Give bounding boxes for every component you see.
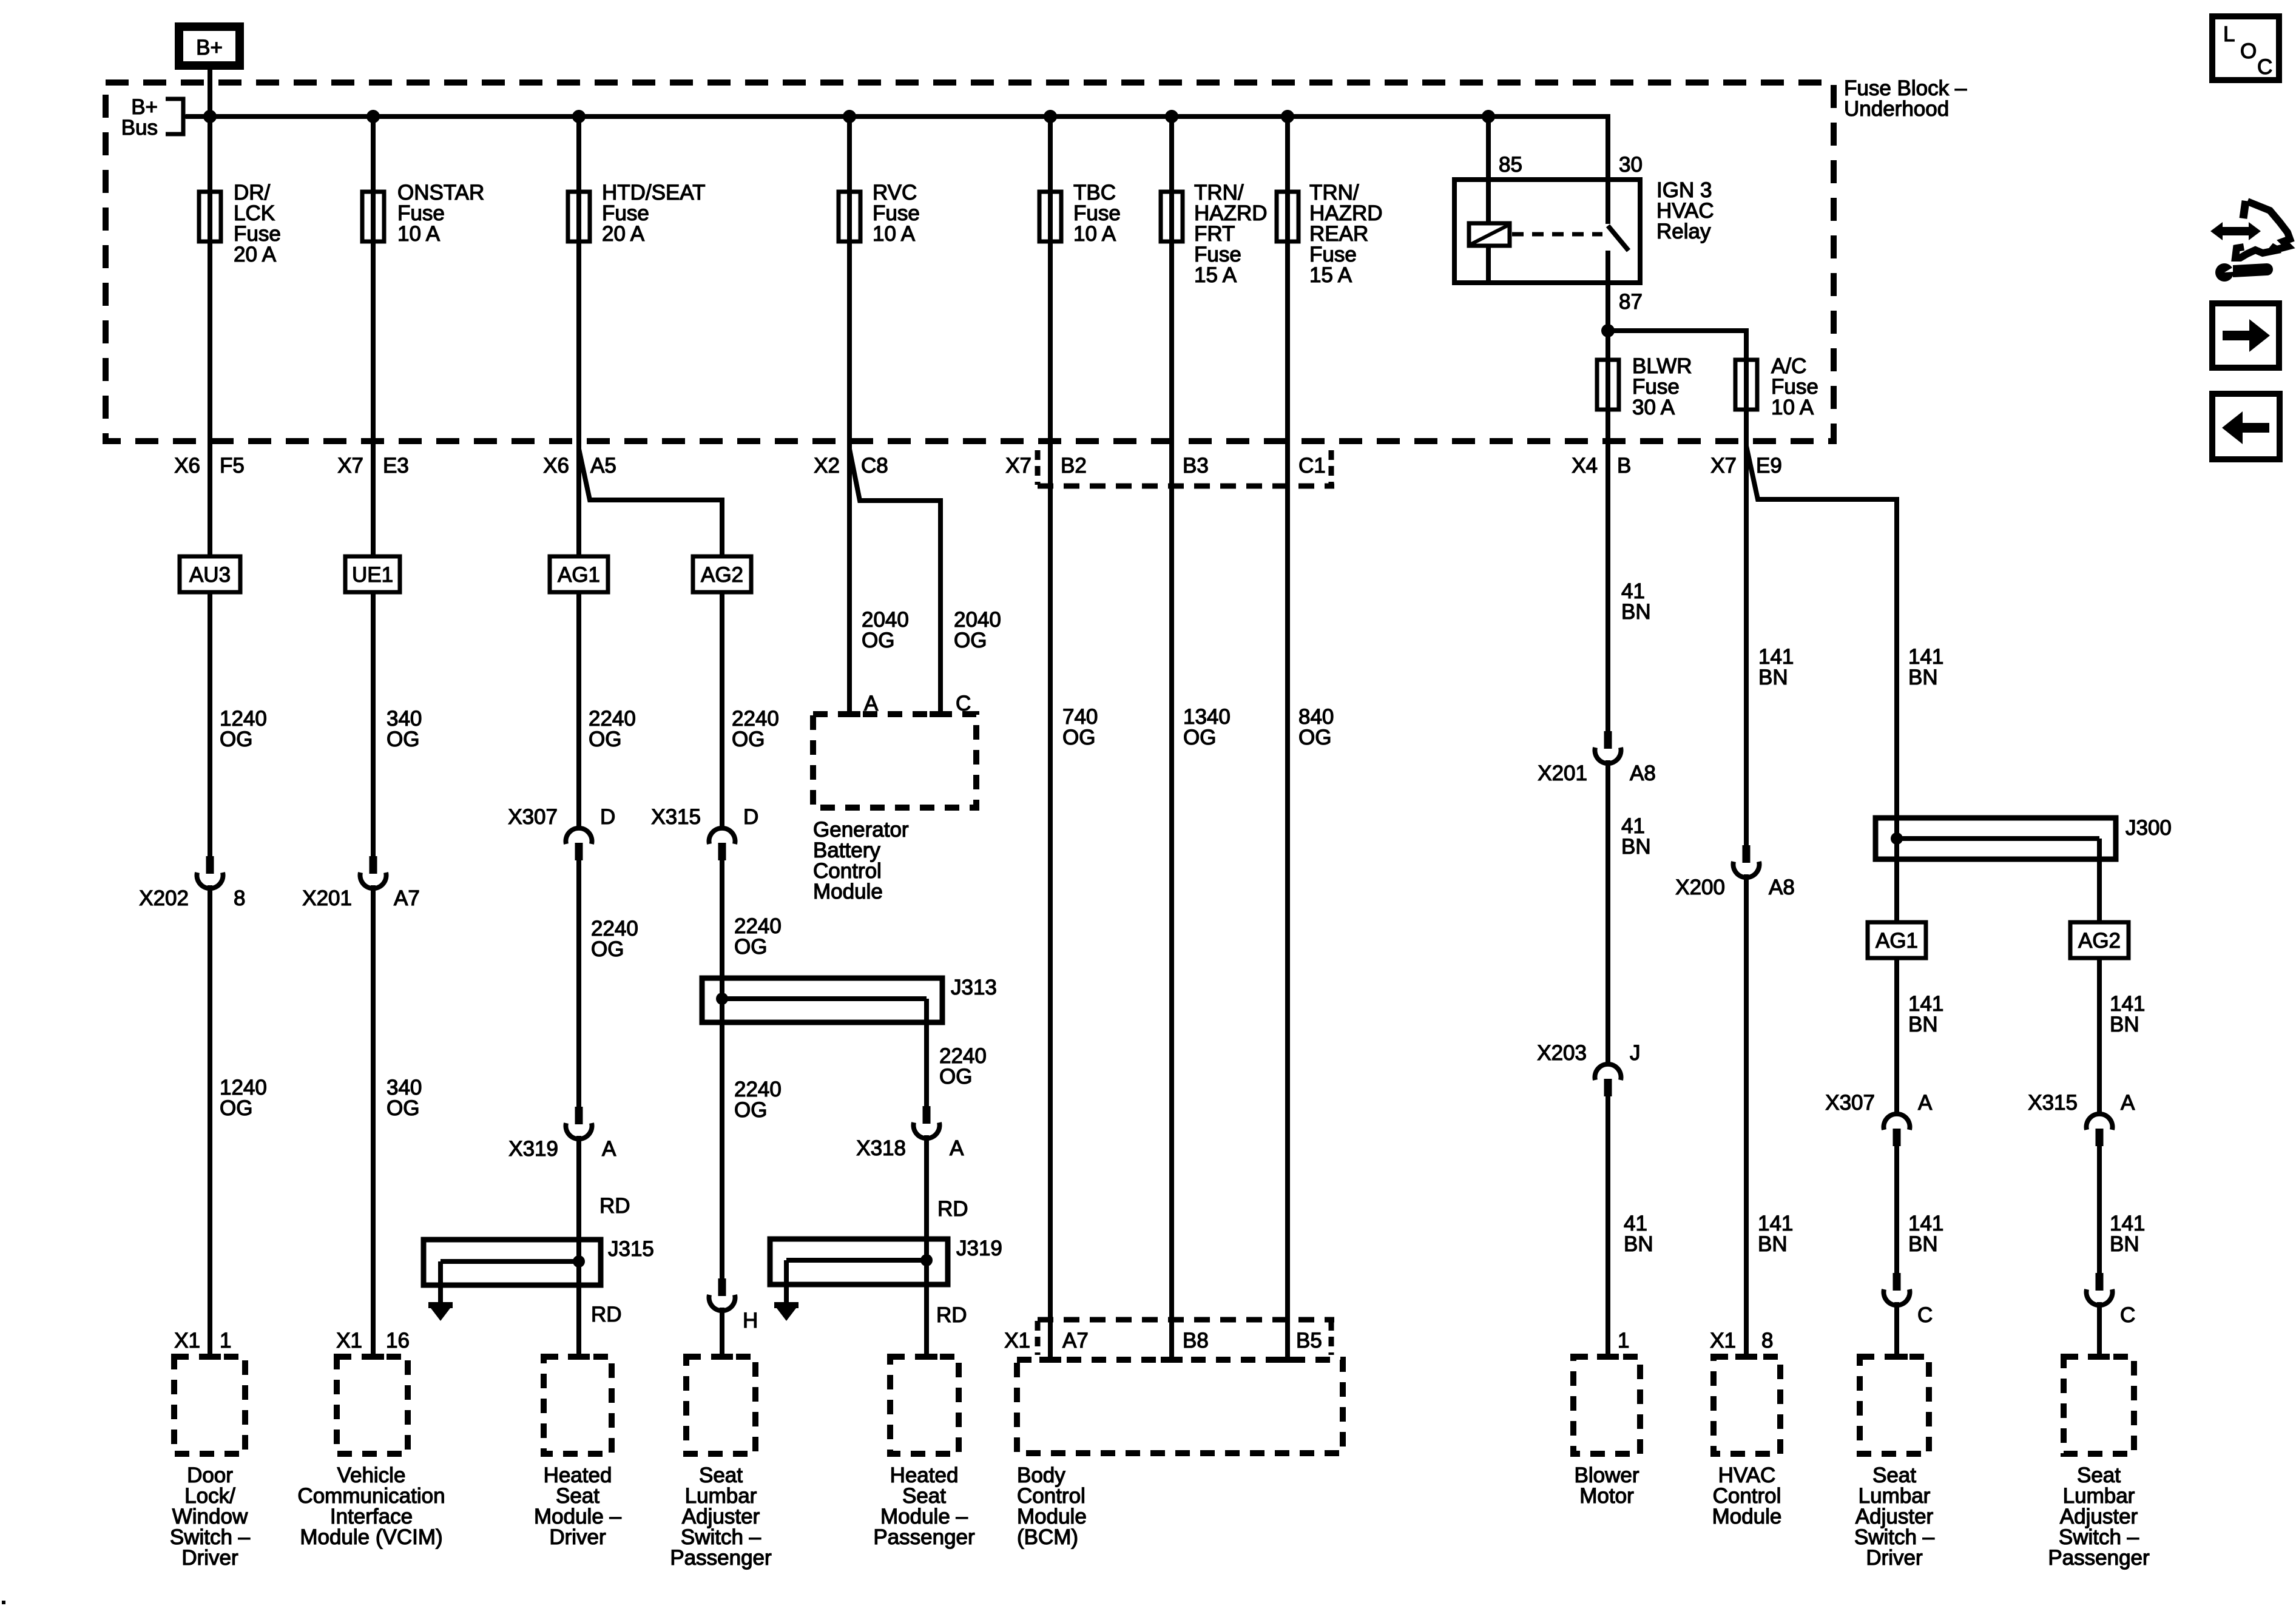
module seat lumbar passenger left dashed box <box>686 1357 755 1454</box>
svg-text:15 A: 15 A <box>1194 263 1237 287</box>
svg-text:AG2: AG2 <box>2078 929 2121 953</box>
wire 41 BN mid <box>1606 760 1610 1064</box>
svg-text:X6: X6 <box>543 454 569 478</box>
label circuit 2240 OG AG1 <box>589 707 636 751</box>
wire BLWR column down <box>1606 411 1610 731</box>
svg-text:B8: B8 <box>1183 1329 1209 1352</box>
wire branch E9 to J300 <box>1746 446 1897 818</box>
wire B+ drop <box>208 70 212 116</box>
label circuit 1240 OG <box>220 707 267 751</box>
junction dot 87 <box>1601 324 1615 337</box>
module seat lumbar driver right label <box>1854 1463 1935 1570</box>
fuse TRN/HAZRD FRT 15A <box>1161 181 1268 287</box>
svg-text:B3: B3 <box>1183 454 1209 478</box>
splice J319 <box>770 1237 1002 1302</box>
label circuit 740 OG <box>1062 705 1098 749</box>
label circuit 2040 OG C <box>954 608 1001 652</box>
svg-text:J313: J313 <box>951 976 997 999</box>
svg-text:10 A: 10 A <box>1073 222 1116 246</box>
junction dot bus TRN/HAZRD REAR <box>1281 110 1294 123</box>
svg-text:F5: F5 <box>220 454 245 478</box>
option code box UE1 <box>345 556 400 592</box>
junction dot bus RVC <box>843 110 856 123</box>
svg-text:UE1: UE1 <box>352 563 393 587</box>
svg-text:X201: X201 <box>302 886 352 910</box>
svg-text:X319: X319 <box>508 1137 558 1161</box>
junction dot bus relay pin85 <box>1482 110 1495 123</box>
splice J300 <box>1876 816 2172 859</box>
svg-text:Module (VCIM): Module (VCIM) <box>300 1525 442 1549</box>
module heated seat driver dashed box <box>544 1357 612 1454</box>
svg-text:20 A: 20 A <box>234 243 277 266</box>
svg-text:A7: A7 <box>1062 1329 1089 1352</box>
svg-text:X307: X307 <box>1825 1091 1875 1115</box>
label circuit 141 BN AG1 <box>1908 992 1943 1036</box>
wire column HTD/SEAT upper <box>576 116 581 556</box>
junction dot bus TRN/HAZRD FRT <box>1165 110 1178 123</box>
svg-text:BN: BN <box>1758 666 1788 689</box>
pin X1 16 vcim <box>336 1329 410 1352</box>
svg-text:OG: OG <box>1062 726 1095 749</box>
svg-text:BN: BN <box>2110 1232 2139 1256</box>
wire column TBC <box>1048 116 1053 1360</box>
module seat lumbar driver right dashed box <box>1860 1357 1929 1454</box>
svg-text:A5: A5 <box>590 454 616 478</box>
svg-text:OG: OG <box>734 1098 767 1122</box>
label circuit 2240 OG AG2 lower <box>734 1078 782 1122</box>
wire H to box <box>720 1308 724 1357</box>
label circuit 41 BN mid <box>1621 814 1651 859</box>
svg-text:BN: BN <box>1758 1232 1788 1256</box>
svg-text:X1: X1 <box>336 1329 362 1352</box>
pin X1 A7 B8 B5 bcm <box>1004 1329 1322 1352</box>
wire 141 BN lumbar passenger <box>2097 1146 2102 1273</box>
svg-text:X201: X201 <box>1538 761 1587 785</box>
svg-text:Relay: Relay <box>1656 220 1711 243</box>
pin X6 A5 fuse block exit <box>543 454 616 478</box>
svg-text:X7: X7 <box>1710 454 1737 478</box>
module heated seat passenger label <box>873 1463 975 1549</box>
svg-text:BN: BN <box>1621 835 1651 859</box>
svg-text:C1: C1 <box>1298 454 1326 478</box>
option code box AG1 right <box>1868 922 1926 958</box>
label circuit 2240 OG branch <box>939 1044 987 1089</box>
wire 141 BN hvac lower <box>1744 874 1749 1357</box>
svg-text:A: A <box>602 1137 616 1161</box>
svg-text:E3: E3 <box>383 454 409 478</box>
pin X4 B fuse block exit <box>1572 454 1631 478</box>
svg-text:X203: X203 <box>1537 1041 1587 1065</box>
module seat lumbar passenger left label <box>670 1463 772 1570</box>
wire 340 OG upper <box>371 592 376 856</box>
svg-text:OG: OG <box>220 727 252 751</box>
connector C lumbar passenger <box>2087 1273 2136 1327</box>
svg-text:X315: X315 <box>2028 1091 2078 1115</box>
wire 41 BN lower <box>1606 1096 1610 1357</box>
module BCM dashed box <box>1017 1360 1343 1453</box>
svg-text:A8: A8 <box>1769 876 1795 899</box>
module hvac control label <box>1712 1463 1782 1528</box>
svg-text:H: H <box>743 1309 758 1332</box>
module BCM label <box>1017 1463 1087 1549</box>
svg-text:10 A: 10 A <box>397 222 441 246</box>
svg-text:Passenger: Passenger <box>873 1525 975 1549</box>
svg-text:1: 1 <box>220 1329 231 1352</box>
svg-text:C8: C8 <box>861 454 888 478</box>
svg-text:Bus: Bus <box>121 116 158 140</box>
wire column TRN/HAZRD REAR <box>1285 116 1290 1360</box>
wire relay coil return <box>1486 246 1491 283</box>
fuse A/C 10A <box>1735 354 1818 419</box>
label circuit 2240 OG AG2 <box>732 707 779 751</box>
wire column DR/LCK upper <box>208 116 212 556</box>
splice J315 <box>424 1237 654 1302</box>
svg-text:OG: OG <box>734 935 767 959</box>
svg-text:BN: BN <box>1908 1232 1938 1256</box>
module VCIM label <box>297 1463 445 1549</box>
label circuit 141 BN AG2 <box>2110 992 2145 1036</box>
wire B+ bus <box>186 114 1608 119</box>
svg-text:X202: X202 <box>139 886 189 910</box>
pin X1 1 door lock <box>174 1329 231 1352</box>
svg-text:X1: X1 <box>1004 1329 1030 1352</box>
Fuse Block label <box>1844 76 1967 121</box>
svg-text:30: 30 <box>1619 153 1643 177</box>
junction dot bus ONSTAR <box>366 110 380 123</box>
connector X201 pin A8 <box>1538 731 1656 785</box>
svg-text:10 A: 10 A <box>873 222 916 246</box>
svg-text:87: 87 <box>1619 290 1643 314</box>
pin C1 fuse block exit <box>1298 454 1326 478</box>
generator battery control module label <box>813 818 909 903</box>
wire 1240 OG upper <box>208 592 212 856</box>
fuse TBC 10A <box>1039 181 1121 246</box>
option code box AG1 left <box>550 556 608 592</box>
wire J313 branch down <box>924 999 929 1106</box>
svg-text:85: 85 <box>1499 153 1522 177</box>
ground G201 at J319 <box>774 1302 799 1321</box>
wire RD passenger <box>924 1135 929 1357</box>
wire 1240 OG lower <box>208 885 212 1357</box>
wire AG2 right down <box>2097 958 2102 1113</box>
wire column ONSTAR upper <box>371 116 376 556</box>
svg-text:Driver: Driver <box>549 1525 606 1549</box>
svg-text:C: C <box>1917 1303 1933 1327</box>
connector X202 pin 8 <box>139 856 245 910</box>
svg-text:30 A: 30 A <box>1632 396 1675 419</box>
svg-text:BN: BN <box>1908 666 1938 689</box>
pin X7 E3 fuse block exit <box>337 454 409 478</box>
wire branch to A/C fuse <box>1608 331 1746 357</box>
connector X315 pin A <box>2028 1091 2135 1146</box>
svg-text:(BCM): (BCM) <box>1017 1525 1078 1549</box>
connector X315 pin D <box>651 805 758 860</box>
svg-text:OG: OG <box>387 727 419 751</box>
wire AG1 right down <box>1894 958 1899 1113</box>
wire 2240 OG AG2 upper <box>720 592 724 828</box>
module hvac control dashed box <box>1714 1357 1780 1454</box>
svg-text:X2: X2 <box>814 454 840 478</box>
svg-text:8: 8 <box>234 886 245 910</box>
fuse DR/LCK 20A <box>199 181 281 266</box>
icon hand tool <box>2210 201 2290 282</box>
svg-text:AG1: AG1 <box>558 563 600 587</box>
svg-text:OG: OG <box>220 1096 252 1120</box>
svg-text:Module: Module <box>1712 1505 1782 1528</box>
module seat lumbar passenger right dashed box <box>2064 1357 2134 1454</box>
wire RD driver <box>576 1136 581 1357</box>
svg-text:D: D <box>743 805 758 829</box>
svg-text:X6: X6 <box>174 454 200 478</box>
label circuit 840 OG <box>1298 705 1334 749</box>
wire J300 branch to AG2 <box>2097 839 2102 922</box>
connector X201 pin A7 <box>302 856 420 910</box>
label circuit 141 BN hvac upper <box>1758 645 1794 689</box>
wire 2240 OG AG2 mid <box>720 860 724 1278</box>
svg-text:OG: OG <box>1298 726 1331 749</box>
wire pin87 down <box>1606 283 1610 556</box>
svg-text:Passenger: Passenger <box>2048 1546 2150 1570</box>
svg-text:J300: J300 <box>2125 816 2172 840</box>
svg-text:C: C <box>2257 55 2272 79</box>
label circuit 2240 OG AG1 mid <box>591 917 638 961</box>
connector X307 pin D <box>508 805 615 860</box>
module VCIM dashed box <box>337 1357 408 1454</box>
fuse BLWR 30A <box>1597 354 1692 419</box>
svg-text:X315: X315 <box>651 805 701 829</box>
svg-text:X4: X4 <box>1572 454 1598 478</box>
svg-text:J: J <box>1630 1041 1641 1065</box>
svg-text:10 A: 10 A <box>1771 396 1814 419</box>
icon LOC box <box>2212 16 2279 80</box>
wire relay pin30 from bus <box>1606 114 1610 180</box>
svg-text:OG: OG <box>591 937 624 961</box>
connector X203 pin J <box>1537 1041 1640 1096</box>
svg-text:A7: A7 <box>394 886 420 910</box>
svg-text:A: A <box>1918 1091 1933 1115</box>
wire column RVC <box>847 116 852 714</box>
svg-text:B: B <box>1617 454 1631 478</box>
label circuit 141 BN lumbar driver <box>1908 1212 1943 1256</box>
wire C to lumbar driver box <box>1894 1302 1899 1357</box>
connector X319 pin A <box>508 1107 616 1161</box>
wire A/C column down <box>1744 357 1749 845</box>
svg-text:15 A: 15 A <box>1309 263 1352 287</box>
svg-text:OG: OG <box>1183 726 1216 749</box>
svg-text:X1: X1 <box>1710 1329 1736 1352</box>
svg-text:OG: OG <box>732 727 765 751</box>
svg-text:16: 16 <box>386 1329 410 1352</box>
connector X318 pin A <box>856 1106 964 1160</box>
fuse HTD/SEAT 20A <box>568 181 705 246</box>
pin X6 F5 fuse block exit <box>174 454 245 478</box>
svg-text:OG: OG <box>939 1065 972 1089</box>
label circuit 2040 OG A <box>862 608 909 652</box>
fuse TRN/HAZRD REAR 15A <box>1277 181 1383 287</box>
label circuit 340 OG <box>387 707 422 751</box>
svg-text:RD: RD <box>599 1194 630 1218</box>
label circuit 2240 OG AG2 mid <box>734 914 782 959</box>
label circuit 41 BN upper <box>1621 579 1651 624</box>
fuse ONSTAR 10A <box>362 181 484 246</box>
svg-text:OG: OG <box>589 727 621 751</box>
wire branch HTD/SEAT to AG2 <box>579 449 722 556</box>
wire J300 through to AG1 <box>1894 818 1899 922</box>
label circuit 340 OG lower <box>387 1076 422 1120</box>
connector X307 pin A <box>1825 1091 1933 1146</box>
svg-text:B+: B+ <box>196 36 223 59</box>
svg-text:BN: BN <box>1621 600 1651 624</box>
connector H seat lumbar passenger <box>709 1278 758 1332</box>
svg-text:X200: X200 <box>1675 876 1725 899</box>
label circuit 141 BN lumbar passenger <box>2110 1212 2145 1256</box>
svg-text:Driver: Driver <box>181 1546 238 1570</box>
wire 2240 OG AG1 mid <box>576 860 581 1107</box>
label circuit 141 BN hvac lower <box>1758 1212 1793 1256</box>
svg-text:BN: BN <box>1624 1232 1653 1256</box>
option code box AG2 left <box>693 556 751 592</box>
B+ power symbol <box>179 27 240 66</box>
wire branch RVC to pin C <box>849 449 940 714</box>
svg-text:X307: X307 <box>508 805 558 829</box>
svg-text:O: O <box>2240 39 2257 63</box>
ground G200 at J315 <box>428 1302 453 1321</box>
junction dot bus HTD/SEAT <box>572 110 586 123</box>
svg-text:AG2: AG2 <box>701 563 743 587</box>
svg-text:BN: BN <box>1908 1013 1938 1036</box>
svg-text:J319: J319 <box>956 1237 1002 1260</box>
pin B3 fuse block exit <box>1183 454 1209 478</box>
connector C lumbar driver <box>1884 1273 1933 1327</box>
fuse block underhood dashed box <box>106 83 1834 441</box>
module blower motor dashed box <box>1573 1357 1640 1454</box>
svg-text:J315: J315 <box>608 1237 654 1261</box>
svg-text:A8: A8 <box>1630 761 1656 785</box>
wire 340 OG lower <box>371 885 376 1357</box>
module blower motor label <box>1575 1463 1639 1508</box>
wire column TRN/HAZRD FRT <box>1169 116 1174 1360</box>
svg-text:A: A <box>950 1136 964 1160</box>
icon arrow back <box>2212 394 2280 459</box>
connector X200 pin A8 <box>1675 845 1795 899</box>
svg-text:L: L <box>2223 22 2235 46</box>
module heated seat driver label <box>534 1463 622 1549</box>
svg-text:AU3: AU3 <box>189 563 231 587</box>
svg-text:RD: RD <box>936 1303 967 1327</box>
svg-text:RD: RD <box>937 1197 968 1221</box>
generator battery control module dashed box <box>813 714 976 808</box>
svg-text:Motor: Motor <box>1579 1484 1634 1508</box>
module heated seat passenger dashed box <box>890 1357 959 1454</box>
svg-text:C: C <box>2120 1303 2135 1327</box>
svg-text:Driver: Driver <box>1866 1546 1923 1570</box>
svg-text:X7: X7 <box>337 454 363 478</box>
svg-text:Underhood: Underhood <box>1844 97 1949 121</box>
pin X7 B2 fuse block exit <box>1005 454 1087 478</box>
junction dot bus TBC <box>1044 110 1057 123</box>
svg-text:RD: RD <box>591 1303 622 1326</box>
label circuit 141 BN j300 feed <box>1908 645 1943 689</box>
svg-text:8: 8 <box>1761 1329 1773 1352</box>
svg-text:X7: X7 <box>1005 454 1032 478</box>
wire relay pin85 from bus <box>1486 116 1491 180</box>
relay K IGN3 HVAC <box>1454 178 1714 283</box>
svg-text:Passenger: Passenger <box>670 1546 772 1570</box>
label circuit 41 BN lower <box>1624 1212 1653 1256</box>
BCM connector dashed boundary bottom <box>1038 1320 1334 1355</box>
pin X1 8 hvac <box>1710 1329 1773 1352</box>
svg-text:OG: OG <box>862 629 894 652</box>
pin X2 C8 fuse block exit <box>814 454 888 478</box>
svg-text:B2: B2 <box>1061 454 1087 478</box>
option code box AU3 <box>180 556 240 592</box>
svg-text:20 A: 20 A <box>602 222 645 246</box>
svg-text:A: A <box>2121 1091 2135 1115</box>
svg-text:OG: OG <box>387 1096 419 1120</box>
svg-text:B5: B5 <box>1296 1329 1322 1352</box>
junction dot bus DR/LCK <box>203 110 217 123</box>
svg-text:OG: OG <box>954 629 987 652</box>
svg-text:AG1: AG1 <box>1876 929 1918 953</box>
wire 2240 OG AG1 upper <box>576 592 581 828</box>
module seat lumbar passenger right label <box>2048 1463 2150 1570</box>
fuse RVC 10A <box>839 181 920 246</box>
svg-text:D: D <box>600 805 615 829</box>
icon arrow next <box>2212 303 2279 368</box>
label circuit 1240 OG lower <box>220 1076 267 1120</box>
pin X7 E9 fuse block exit <box>1710 454 1782 478</box>
label circuit 1340 OG <box>1183 705 1231 749</box>
svg-text:X1: X1 <box>174 1329 200 1352</box>
splice J313 <box>702 976 997 1022</box>
BCM connector dashed boundary top <box>1038 450 1334 486</box>
svg-text:X318: X318 <box>856 1136 906 1160</box>
wire C to lumbar passenger box <box>2097 1302 2102 1357</box>
module door lock label <box>170 1463 251 1570</box>
page dot <box>2 1601 5 1604</box>
svg-text:BN: BN <box>2110 1013 2139 1036</box>
module door lock window switch driver dashed box <box>174 1357 245 1454</box>
svg-text:E9: E9 <box>1756 454 1782 478</box>
svg-text:1: 1 <box>1618 1329 1629 1352</box>
option code box AG2 right <box>2070 922 2129 958</box>
node B+ Bus label and bracket <box>121 95 209 140</box>
svg-text:Module: Module <box>813 880 883 903</box>
wire 141 BN lumbar driver <box>1894 1146 1899 1273</box>
